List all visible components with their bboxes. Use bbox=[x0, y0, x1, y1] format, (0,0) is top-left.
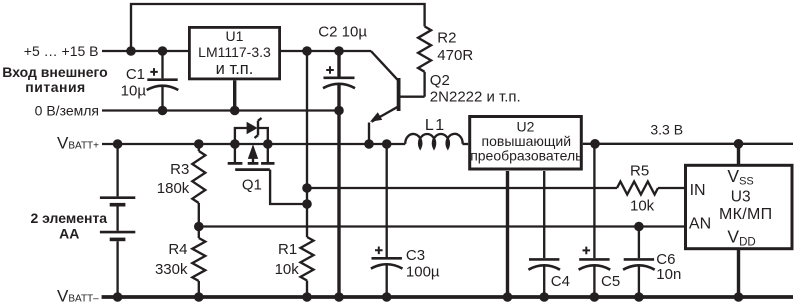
svg-text:U3: U3 bbox=[731, 189, 751, 206]
inductor L1 bbox=[405, 134, 462, 148]
svg-text:Q1: Q1 bbox=[242, 177, 262, 194]
battery 2xAA bbox=[116, 144, 118, 196]
wire 3.3V rail bbox=[583, 143, 793, 145]
svg-text:R3: R3 bbox=[170, 161, 189, 178]
svg-text:C4: C4 bbox=[551, 273, 570, 290]
svg-text:Вход внешнего: Вход внешнего bbox=[2, 64, 107, 80]
svg-text:2 элемента: 2 элемента bbox=[30, 210, 107, 226]
svg-text:R2: R2 bbox=[437, 29, 456, 46]
U1 regulator box bbox=[189, 27, 279, 79]
svg-text:преобразователь: преобразователь bbox=[470, 148, 582, 164]
wire IN line bbox=[307, 187, 617, 189]
svg-text:МК/МП: МК/МП bbox=[719, 206, 772, 223]
svg-text:10µ: 10µ bbox=[121, 83, 147, 100]
svg-text:10n: 10n bbox=[656, 266, 681, 283]
svg-text:AN: AN bbox=[689, 216, 711, 233]
svg-text:0 В/земля: 0 В/земля bbox=[35, 103, 99, 119]
wire Q1 gate to node bbox=[270, 170, 307, 204]
zener body diode of Q1 bbox=[235, 128, 247, 144]
capacitor C1 bbox=[161, 51, 163, 78]
wire U3 VSS pin bbox=[737, 144, 740, 164]
svg-text:R5: R5 bbox=[630, 163, 649, 180]
U3 microcontroller box bbox=[686, 165, 793, 248]
capacitor C3 100u bbox=[386, 144, 388, 257]
wire L1 to U2 bbox=[462, 143, 468, 145]
svg-text:R1: R1 bbox=[278, 241, 297, 258]
svg-text:C3: C3 bbox=[406, 247, 425, 264]
svg-text:180k: 180k bbox=[157, 180, 190, 197]
svg-text:Q2: Q2 bbox=[430, 72, 450, 89]
svg-text:330k: 330k bbox=[155, 261, 188, 278]
capacitor C6 10n bbox=[638, 227, 640, 259]
svg-text:+5 … +15 В: +5 … +15 В bbox=[24, 43, 99, 59]
svg-text:L1: L1 bbox=[425, 117, 446, 134]
svg-text:3.3 В: 3.3 В bbox=[650, 121, 683, 137]
svg-text:470R: 470R bbox=[437, 47, 473, 64]
wire top loop from +5V input to R2 bbox=[131, 4, 425, 51]
svg-text:10k: 10k bbox=[630, 198, 655, 215]
wire U1 output rail bbox=[281, 50, 371, 52]
wire sense node vertical (U1 out to R1) bbox=[306, 51, 308, 237]
wire U2 ground pin bbox=[506, 171, 509, 297]
svg-text:R4: R4 bbox=[168, 241, 187, 258]
wire U1 ground pin bbox=[233, 80, 236, 110]
svg-text:C5: C5 bbox=[601, 273, 620, 290]
wire U2 pin to C4 bbox=[543, 171, 545, 258]
wire AN line from divider bbox=[199, 225, 685, 227]
wire +5V rail bbox=[102, 50, 188, 52]
svg-text:LM1117-3.3: LM1117-3.3 bbox=[198, 44, 271, 60]
wire VBATT- bottom rail bbox=[102, 295, 793, 299]
svg-text:и т.п.: и т.п. bbox=[216, 60, 254, 78]
wire U3 VDD pin bbox=[737, 250, 740, 297]
resistor R1 10k bbox=[301, 237, 314, 281]
node dots bbox=[113, 46, 744, 302]
svg-text:питания: питания bbox=[25, 79, 85, 95]
svg-text:C1: C1 bbox=[126, 66, 145, 83]
svg-text:IN: IN bbox=[690, 182, 706, 199]
svg-text:100µ: 100µ bbox=[406, 264, 440, 281]
svg-text:U1: U1 bbox=[226, 28, 244, 44]
transistor Q1 P-MOSFET bbox=[234, 144, 236, 162]
svg-text:АА: АА bbox=[59, 225, 79, 241]
svg-text:C2 10µ: C2 10µ bbox=[318, 23, 367, 40]
svg-text:10k: 10k bbox=[275, 261, 300, 278]
resistor R3 180k bbox=[198, 144, 200, 151]
resistor R5 10k bbox=[617, 182, 658, 195]
resistor R2 470R bbox=[418, 26, 431, 71]
capacitor C2 bbox=[337, 51, 340, 77]
wire VBATT+ rail bbox=[102, 143, 405, 145]
U2 boost converter box bbox=[470, 117, 582, 170]
capacitor C4 bbox=[529, 258, 559, 261]
transistor Q2 2N2222 bbox=[397, 78, 401, 111]
wire 0V rail bbox=[102, 109, 339, 111]
resistor R4 330k bbox=[198, 227, 200, 239]
capacitor C5 bbox=[593, 144, 595, 258]
svg-text:2N2222 и т.п.: 2N2222 и т.п. bbox=[430, 88, 521, 105]
